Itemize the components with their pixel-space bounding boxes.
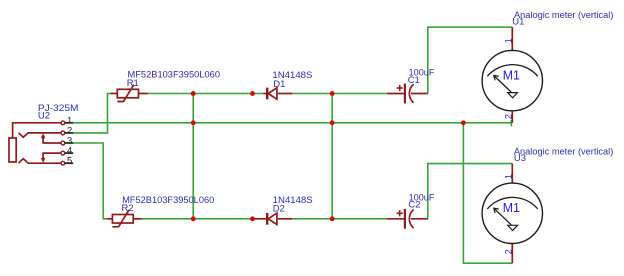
meter U1 pin 2 lead bbox=[511, 111, 513, 123]
svg-text:M1: M1 bbox=[503, 68, 520, 83]
svg-text:C2: C2 bbox=[408, 200, 420, 211]
svg-text:Analogic meter (vertical): Analogic meter (vertical) bbox=[514, 10, 613, 21]
wire vertical bus left bbox=[192, 94, 194, 219]
meter U3 scale arc bbox=[487, 197, 538, 209]
diode D2 bbox=[253, 213, 292, 225]
junction at long row and U3 branch bbox=[461, 120, 466, 125]
capacitor C2 bbox=[387, 209, 428, 229]
wire pin3 to R2 left bbox=[73, 143, 107, 219]
svg-text:5: 5 bbox=[67, 156, 72, 167]
meter U1 needle bbox=[494, 76, 511, 93]
svg-text:M1: M1 bbox=[503, 200, 520, 215]
svg-text:2: 2 bbox=[504, 249, 514, 254]
wire down to U3 pin2 bbox=[463, 123, 512, 263]
thermistor R1 bbox=[110, 85, 148, 102]
connector U2 switch arrow up bbox=[41, 133, 46, 138]
meter U3 needle arrowhead bbox=[494, 208, 499, 213]
diode D1 bbox=[263, 88, 292, 100]
svg-text:D1: D1 bbox=[273, 79, 285, 90]
connector U2 body sleeve bbox=[9, 123, 63, 163]
wire R2 right to D2 bbox=[142, 218, 253, 220]
connector U2 pin circles bbox=[61, 121, 65, 165]
svg-text:U2: U2 bbox=[38, 110, 50, 121]
junction at D1 anode lead bbox=[250, 91, 255, 96]
wire D1 to C1 bbox=[293, 93, 388, 95]
junction at R2/D2 row and right bus bbox=[330, 216, 335, 221]
wire C2 up to U3 pin1 bbox=[428, 164, 513, 219]
wire pin1 long row bbox=[73, 122, 511, 124]
wire C1 up to U1 pin1 bbox=[428, 27, 513, 93]
junction at R2/D2 row and left bus bbox=[191, 216, 196, 221]
svg-text:R2: R2 bbox=[122, 203, 134, 214]
svg-text:D2: D2 bbox=[273, 203, 285, 214]
junction at R1/D1 row and right bus bbox=[330, 91, 335, 96]
meter U1 pin 1 lead bbox=[511, 27, 513, 50]
svg-text:R1: R1 bbox=[127, 78, 139, 89]
meter U1 body bbox=[482, 50, 542, 110]
svg-text:MF52B103F3950L060: MF52B103F3950L060 bbox=[128, 69, 221, 80]
connector U2 pin stubs bbox=[65, 123, 73, 163]
junction at long row and right bus bbox=[330, 120, 335, 125]
connector U2 switch arrow down bbox=[41, 158, 46, 163]
junction at R1/D1 row and left bus bbox=[191, 91, 196, 96]
svg-text:C1: C1 bbox=[408, 75, 420, 86]
meter U3 needle bbox=[494, 208, 511, 225]
svg-text:1: 1 bbox=[504, 174, 514, 179]
svg-text:MF52B103F3950L060: MF52B103F3950L060 bbox=[122, 195, 214, 206]
meter U3 pin 1 lead bbox=[511, 164, 513, 184]
wire R1 right to D1 bbox=[148, 93, 263, 95]
meter U1 scale arc bbox=[487, 65, 538, 77]
svg-text:1: 1 bbox=[504, 38, 514, 43]
wire D2 to C2 bbox=[292, 218, 387, 220]
meter U3 pivot triangle bbox=[508, 225, 518, 230]
wire vertical bus right bbox=[331, 94, 333, 219]
thermistor R2 bbox=[107, 210, 142, 227]
meter U3 body bbox=[482, 183, 542, 243]
meter U3 pin 2 lead bbox=[511, 244, 513, 264]
capacitor C1 bbox=[387, 84, 428, 104]
wire U1 pin2 end tick bbox=[510, 120, 512, 127]
junction at D2 anode lead bbox=[250, 216, 255, 221]
meter U1 pivot triangle bbox=[508, 93, 518, 98]
svg-text:Analogic meter (vertical): Analogic meter (vertical) bbox=[514, 146, 613, 157]
svg-text:U3: U3 bbox=[514, 153, 526, 164]
junction at long row and left bus bbox=[191, 120, 196, 125]
meter U1 needle arrowhead bbox=[494, 75, 499, 80]
wire pin2 to R1 left bbox=[73, 94, 110, 133]
svg-text:U1: U1 bbox=[512, 16, 524, 27]
svg-text:2: 2 bbox=[504, 114, 514, 119]
